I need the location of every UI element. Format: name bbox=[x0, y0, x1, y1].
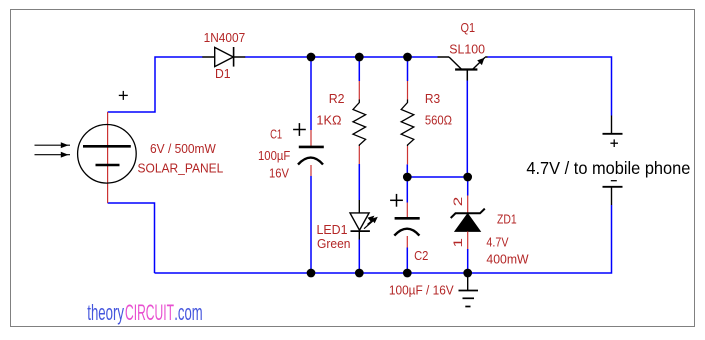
svg-text:4.7V: 4.7V bbox=[486, 235, 508, 250]
svg-text:4.7V / to mobile phone: 4.7V / to mobile phone bbox=[526, 158, 690, 178]
svg-text:Green: Green bbox=[317, 236, 351, 251]
transistor Q1 bbox=[438, 57, 488, 81]
svg-text:CIRCUIT: CIRCUIT bbox=[125, 300, 174, 325]
ground bbox=[459, 273, 479, 307]
terminal minus sign bbox=[611, 180, 617, 182]
wire top-left jog from solar panel plus to top rail bbox=[108, 57, 203, 112]
svg-text:SOLAR_PANEL: SOLAR_PANEL bbox=[138, 161, 224, 176]
svg-text:1: 1 bbox=[451, 238, 465, 248]
LED1 light arrow b bbox=[368, 216, 375, 225]
svg-text:R3: R3 bbox=[425, 91, 440, 106]
wire bottom-left jog from solar panel minus bbox=[108, 203, 155, 273]
junction node bottom rail at C1 bbox=[307, 269, 316, 278]
wire top rail diode to transistor collector bbox=[245, 56, 438, 58]
wire transistor base down to node bbox=[466, 81, 468, 178]
junction node bottom rail at zener/ground bbox=[463, 269, 472, 278]
wire C2 to bottom rail bbox=[406, 248, 408, 274]
wire LED1 to bottom rail bbox=[358, 240, 360, 274]
wire C1 branch upper bbox=[310, 57, 312, 130]
wire emitter to output terminal bbox=[488, 57, 612, 116]
resistor R3 bbox=[401, 81, 414, 164]
light arrow 1 bbox=[35, 142, 71, 148]
capacitor C2 bbox=[394, 203, 419, 248]
wire bottom terminal down to bottom rail bbox=[468, 205, 612, 273]
svg-text:C2: C2 bbox=[414, 248, 428, 263]
svg-text:560Ω: 560Ω bbox=[425, 112, 452, 127]
junction node bottom rail at LED1 bbox=[355, 269, 364, 278]
terminal plus sign bbox=[610, 139, 618, 147]
svg-text:D1: D1 bbox=[215, 66, 231, 81]
output terminal negative bbox=[603, 187, 623, 205]
svg-text:theory: theory bbox=[87, 300, 124, 325]
wire zener top bbox=[467, 177, 469, 196]
junction node top rail at R2 bbox=[355, 53, 364, 62]
svg-text:2: 2 bbox=[451, 196, 465, 206]
C2 plus sign bbox=[390, 194, 403, 207]
svg-text:Q1: Q1 bbox=[461, 20, 476, 35]
wire R2 to LED1 bbox=[358, 164, 360, 200]
solar plus sign bbox=[119, 91, 128, 100]
wire bottom rail bbox=[155, 272, 468, 274]
wire zener bottom to rail bbox=[467, 249, 469, 273]
wire C1 branch lower bbox=[310, 176, 312, 273]
junction node bottom rail at C2 bbox=[403, 269, 412, 278]
zener diode ZD1 bbox=[451, 196, 485, 250]
wire R2 branch upper bbox=[358, 57, 360, 81]
svg-text:SL100: SL100 bbox=[449, 41, 485, 56]
LED1 light arrow a bbox=[364, 217, 378, 229]
svg-text:100µF / 16V: 100µF / 16V bbox=[389, 282, 454, 297]
junction node top rail at C1 bbox=[307, 53, 316, 62]
wire R3 branch upper bbox=[407, 57, 409, 81]
svg-text:16V: 16V bbox=[269, 166, 289, 181]
svg-text:6V / 500mW: 6V / 500mW bbox=[150, 141, 216, 156]
svg-text:100µF: 100µF bbox=[258, 148, 290, 163]
svg-text:400mW: 400mW bbox=[486, 251, 529, 266]
junction node base wire at R3/C2 bbox=[403, 173, 412, 182]
svg-text:R2: R2 bbox=[329, 91, 345, 106]
svg-text:1N4007: 1N4007 bbox=[204, 30, 246, 45]
wire node to C2 bbox=[406, 177, 408, 203]
wire base node horizontal bbox=[407, 176, 467, 178]
solar panel PV1 bbox=[78, 112, 137, 203]
C1 plus sign bbox=[293, 123, 306, 136]
svg-text:1KΩ: 1KΩ bbox=[316, 112, 341, 127]
LED1 bbox=[350, 200, 370, 240]
wire R3 bottom to node bbox=[406, 164, 408, 177]
junction node top rail at R3 bbox=[403, 53, 412, 62]
svg-text:C1: C1 bbox=[270, 127, 282, 142]
logo theoryCIRCUIT.com bbox=[87, 300, 202, 325]
diode D1 bbox=[202, 47, 245, 67]
svg-text:ZD1: ZD1 bbox=[497, 212, 517, 227]
svg-text:.com: .com bbox=[174, 300, 202, 325]
junction node base wire at zener bbox=[463, 173, 472, 182]
resistor R2 bbox=[353, 81, 366, 164]
output terminal positive bbox=[603, 116, 623, 134]
capacitor C1 bbox=[298, 130, 324, 176]
light arrow 2 bbox=[35, 152, 71, 158]
svg-text:LED1: LED1 bbox=[317, 222, 348, 237]
